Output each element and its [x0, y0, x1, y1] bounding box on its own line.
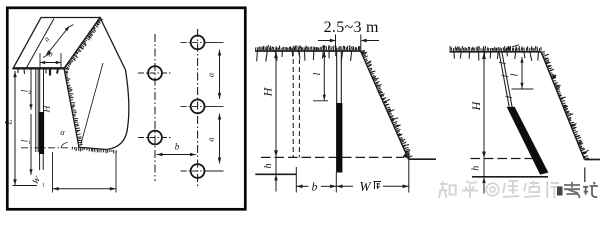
open borehole (3D view) — [35, 69, 37, 153]
hole bottom tick (middle) — [335, 173, 337, 193]
bottom burden dimension W (middle) — [336, 185, 353, 187]
toe ground line (middle section) — [409, 158, 437, 160]
slope face hatching (right section) — [541, 52, 589, 159]
blast hole 3 (plan view) — [191, 36, 205, 50]
free face dashed line 1 (middle) — [292, 51, 294, 157]
blast hole 4 (plan view) — [191, 100, 205, 114]
svg-text:h: h — [470, 166, 481, 171]
stemming ticks on inclined hole — [499, 62, 506, 64]
adjacent hole collar stubs — [49, 69, 51, 76]
ground surface line (middle section) — [255, 50, 361, 52]
right hole-row centerline — [197, 29, 199, 186]
blast hole 5 (plan view) — [191, 164, 205, 178]
svg-text:H: H — [469, 100, 483, 111]
hole spacing dimension a (upper) — [219, 50, 221, 100]
toe ground line (right section) — [585, 159, 600, 161]
design floor dashed line (right) — [471, 158, 537, 160]
svg-text:b: b — [175, 142, 180, 152]
excavated floor line (middle) — [255, 173, 296, 175]
blast hole 2 (plan view) — [148, 131, 162, 145]
svg-text:l: l — [510, 73, 521, 76]
ground surface hatching (right section) — [450, 46, 541, 61]
inclined explosive charge column (right) — [507, 107, 548, 175]
explosive charge column (3D view) — [39, 112, 44, 154]
ground surface hatching (middle section) — [256, 45, 360, 62]
left hole-row centerline — [154, 34, 156, 181]
svg-text:H: H — [261, 86, 275, 97]
slope face hatching (middle section) — [361, 51, 413, 159]
bottom spacing dimension b (middle) — [296, 185, 308, 187]
slope face inner edge — [81, 63, 104, 146]
slope face outline — [64, 18, 129, 150]
svg-text:H: H — [43, 104, 53, 113]
stemming dimension l (right) — [521, 57, 523, 89]
stemming dimension l (middle) — [323, 52, 325, 101]
zhihu watermark — [439, 168, 598, 199]
inclined borehole casing (right) — [499, 52, 509, 107]
svg-text:b: b — [312, 182, 318, 194]
bench top surface — [13, 18, 100, 69]
svg-text:1: 1 — [28, 140, 31, 146]
slope face line (right section) — [541, 52, 585, 160]
figure frame (left panel border) — [7, 8, 245, 210]
crest edge hatching — [65, 18, 103, 70]
svg-text:1: 1 — [42, 183, 45, 189]
sub-bench dimension h (right) — [483, 159, 485, 194]
label bottom-subscript (middle) — [374, 182, 382, 190]
toe arrow on dashed line — [403, 152, 407, 158]
stemming dimension l2 line — [30, 69, 32, 111]
bench height dimension H (right) — [483, 52, 485, 158]
burden tick left (middle) — [295, 167, 297, 193]
charge dimension l1 line — [30, 114, 32, 175]
row spacing dimension b (top surface) — [40, 62, 61, 64]
ground surface line (right section) — [450, 51, 542, 53]
bottom burden dimension W1 — [53, 188, 117, 190]
spacing dimension a arrow (top surface) — [47, 27, 70, 56]
collar pointer arrow (right) — [512, 45, 519, 47]
front edge collar ticks — [13, 67, 64, 69]
svg-text:2.5~3 m: 2.5~3 m — [324, 19, 379, 36]
borehole casing (middle) — [336, 51, 338, 104]
slope face line (middle section) — [361, 51, 409, 159]
row distance dimension b (plan view) — [157, 154, 197, 156]
toe dash-dot line — [21, 147, 68, 149]
L bottom extension line — [13, 185, 38, 187]
free face dashed line 2 (middle) — [298, 51, 300, 157]
excavated floor line (right) — [472, 176, 548, 178]
svg-text:l: l — [312, 72, 323, 75]
slope face left edge hatching — [64, 69, 83, 145]
svg-text:b: b — [49, 50, 53, 59]
blast hole 1 (plan view) — [148, 66, 162, 80]
svg-text:W: W — [359, 179, 372, 194]
svg-text:h: h — [263, 164, 274, 169]
angle alpha arc — [61, 143, 68, 148]
hole spacing dimension a (lower) — [219, 114, 221, 164]
bench bottom edge hatching — [72, 147, 116, 154]
hole row line on top surface — [26, 19, 54, 69]
sub-bench dimension h (middle) — [275, 157, 277, 191]
design floor dashed line (middle) — [261, 156, 404, 158]
overdrill casing below charge (3D view) — [39, 154, 41, 170]
bench height dimension H (middle) — [275, 52, 277, 158]
svg-text:L: L — [4, 119, 14, 125]
toe tick (middle) — [408, 152, 410, 193]
hole length dimension L — [14, 71, 16, 186]
svg-text:a: a — [206, 137, 216, 141]
charged borehole upper casing (3D view) — [39, 69, 41, 113]
svg-text:2: 2 — [28, 90, 31, 96]
explosive charge column (middle) — [336, 103, 342, 173]
svg-text:a: a — [206, 73, 216, 77]
